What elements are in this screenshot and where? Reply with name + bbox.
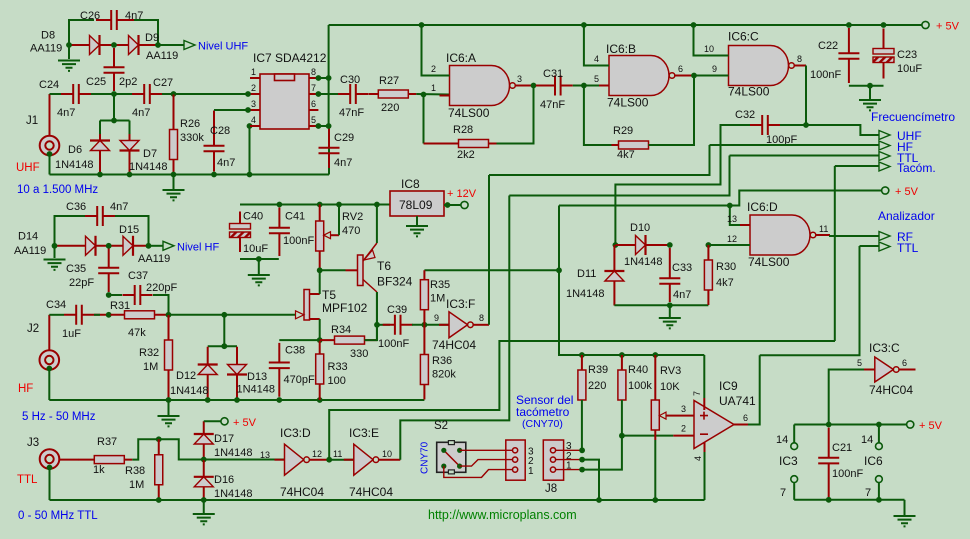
wire to ground xyxy=(869,86,871,99)
junction R35/R36/pin9 xyxy=(422,322,428,328)
resistor R32 xyxy=(165,315,173,400)
wire C29 bottom xyxy=(328,147,330,175)
wire main ground rail xyxy=(50,499,705,501)
junction +5V/R35 line xyxy=(556,267,562,273)
wire rail to IC6:A pin2 xyxy=(422,25,450,76)
svg-text:74LS00: 74LS00 xyxy=(728,85,770,99)
power terminal +12V xyxy=(461,201,468,208)
capacitor C26 xyxy=(96,10,135,30)
wire IC9 pin4 xyxy=(704,452,706,500)
transistor T6 BF324 xyxy=(346,243,377,292)
svg-text:C30: C30 xyxy=(340,74,360,86)
svg-text:R30: R30 xyxy=(716,261,736,273)
capacitor C41 xyxy=(269,208,290,257)
wire to T5 gate xyxy=(224,314,295,316)
junction R33 bottom xyxy=(317,397,323,403)
junction R32 bottom xyxy=(166,397,172,403)
wire J8 pin3 out xyxy=(556,449,583,451)
diode D14 AA119 xyxy=(55,236,110,256)
NAND gate IC6:C 74LS00 xyxy=(719,46,795,86)
svg-text:D12: D12 xyxy=(176,370,196,382)
svg-text:1N4148: 1N4148 xyxy=(55,159,94,171)
svg-text:4n7: 4n7 xyxy=(334,157,352,169)
junction C39 tap xyxy=(374,322,380,328)
wire IC3 pin7 down xyxy=(793,483,795,500)
capacitor C36 xyxy=(85,206,115,226)
wire to D7 xyxy=(129,121,131,135)
wire IC9 pin4 stub xyxy=(704,442,706,452)
svg-text:1N4148: 1N4148 xyxy=(237,384,276,396)
svg-text:tacómetro: tacómetro xyxy=(516,405,570,419)
terminal arrow UHF out xyxy=(879,131,890,140)
wire C28 to IC7 pin3 xyxy=(214,109,250,111)
wire C26 right xyxy=(134,20,158,45)
wire line C upper xyxy=(509,156,729,196)
svg-text:MPF102: MPF102 xyxy=(322,301,368,315)
wire IC3:E out to line C riser xyxy=(400,196,509,460)
terminal arrow Nivel HF xyxy=(163,241,174,250)
capacitor C30 xyxy=(338,84,368,104)
IC3 power pin 7 xyxy=(791,476,798,483)
svg-text:7: 7 xyxy=(692,391,702,396)
junction J8 pin2 xyxy=(579,457,585,463)
connector J2 body xyxy=(40,350,60,370)
svg-text:4n7: 4n7 xyxy=(110,201,128,213)
wire rail to ground xyxy=(173,175,175,190)
wire J8 pin1 out xyxy=(556,469,583,471)
svg-text:22pF: 22pF xyxy=(69,277,94,289)
terminal arrow TTL analyzer xyxy=(879,242,890,251)
wire S2 to header pin3 xyxy=(460,449,513,451)
svg-text:AA119: AA119 xyxy=(146,50,178,62)
wire to IC3:E pin11 xyxy=(329,459,354,461)
junction RV2 top xyxy=(317,202,323,208)
wire TTL analyzer riser xyxy=(760,246,860,355)
junction rail/IC6B pin4 xyxy=(581,22,587,28)
wire to ground xyxy=(904,500,906,515)
wire C24 left xyxy=(50,93,62,95)
wire IC3 pin14 up xyxy=(793,425,795,443)
junction R27/R28 xyxy=(421,92,427,98)
wire C32 left to D10 node (line B) xyxy=(615,125,750,245)
svg-text:1: 1 xyxy=(528,466,534,477)
op-amp IC9 UA741 xyxy=(694,401,734,449)
svg-text:+ 5V: + 5V xyxy=(919,420,943,432)
junction IC7 pin4 down xyxy=(247,172,253,178)
junction bridge xyxy=(221,343,227,349)
wire TTL analyzer arrow xyxy=(860,245,880,247)
junction C41 top xyxy=(277,202,283,208)
junction IC7 pin5 xyxy=(316,123,322,129)
svg-text:TTL: TTL xyxy=(17,474,38,486)
svg-text:RV3: RV3 xyxy=(660,365,681,377)
power terminal +5V top right xyxy=(922,21,929,28)
capacitor C31 xyxy=(536,76,573,96)
svg-text:+ 5V: + 5V xyxy=(233,417,257,429)
wire R37 zigzag to clamp node xyxy=(132,439,203,459)
junction IC7 pin4 xyxy=(247,123,253,129)
junction C25 bottom xyxy=(111,91,117,97)
wire Tacom riser xyxy=(834,166,836,341)
svg-text:C34: C34 xyxy=(46,299,66,311)
wire IC9 pin2 stub xyxy=(673,435,694,437)
junction +5V to IC6:D pin13 xyxy=(727,203,733,209)
svg-text:4k7: 4k7 xyxy=(716,277,734,289)
svg-text:R28: R28 xyxy=(453,124,473,136)
svg-text:R31: R31 xyxy=(110,300,130,312)
wire J2 stub up xyxy=(48,315,50,351)
svg-text:IC6: IC6 xyxy=(864,454,883,468)
svg-text:4: 4 xyxy=(251,115,256,125)
wire to D6 xyxy=(99,121,101,135)
svg-text:R29: R29 xyxy=(613,125,633,137)
wire down to R29 xyxy=(584,86,619,146)
svg-text:1N4148: 1N4148 xyxy=(624,256,663,268)
svg-text:74HC04: 74HC04 xyxy=(280,485,324,499)
svg-text:11: 11 xyxy=(819,224,828,234)
capacitor C35 xyxy=(98,249,119,293)
junction bridge gnd xyxy=(256,256,262,262)
wire Tacom arrow line xyxy=(835,165,879,167)
diode D12 1N4148 xyxy=(198,347,218,400)
svg-text:74HC04: 74HC04 xyxy=(869,383,913,397)
junction D13 bottom xyxy=(234,397,240,403)
terminal arrow Tacom out xyxy=(879,162,890,171)
svg-text:100nF: 100nF xyxy=(283,235,314,247)
svg-text:14: 14 xyxy=(861,434,873,446)
resistor R40 xyxy=(618,355,626,400)
wire rail to IC6:C pin10 xyxy=(694,25,729,56)
svg-text:10uF: 10uF xyxy=(897,63,922,75)
svg-text:IC6:B: IC6:B xyxy=(606,42,636,56)
IC6 power pin 7 xyxy=(876,476,883,483)
svg-text:3: 3 xyxy=(681,404,686,414)
junction C33 bottom xyxy=(667,302,673,308)
junction C35 bottom node xyxy=(106,312,112,318)
capacitor C24 xyxy=(61,84,91,104)
IC7 pin 1 stub xyxy=(250,77,260,79)
wire to IC9 pin2 xyxy=(622,435,673,437)
capacitor C37 xyxy=(123,285,153,305)
wire IC6:D pin11 stub xyxy=(816,234,830,236)
svg-text:C29: C29 xyxy=(334,132,354,144)
wire T5 source down xyxy=(319,319,321,340)
wire down to D6/D7 xyxy=(113,94,115,121)
wire +5V riser and sub-rail xyxy=(559,206,704,356)
wire pin6 node to IC6:C pin9 xyxy=(694,75,729,77)
wire to ground xyxy=(168,400,170,415)
svg-text:T6: T6 xyxy=(377,259,391,273)
junction RV3 bottom xyxy=(652,497,658,503)
wire to Nivel UHF arrow xyxy=(158,44,184,46)
wire J2 down xyxy=(48,369,50,401)
junction R38 bottom xyxy=(156,497,162,503)
wire clamp to IC3:D pin13 xyxy=(204,459,285,461)
junction T5 drain/RV2/T6 base xyxy=(317,267,323,273)
svg-text:6: 6 xyxy=(743,413,748,423)
junction R34/R33/T5 xyxy=(317,337,323,343)
svg-text:3: 3 xyxy=(517,74,522,84)
svg-text:UA741: UA741 xyxy=(719,394,756,408)
component S2 CNY70 sensor xyxy=(437,441,466,474)
inverter IC3:C 74HC04 xyxy=(865,357,899,382)
wire T5 drain up xyxy=(319,270,321,294)
junction R40/pin2/J8-1 xyxy=(619,433,625,439)
wire down to bridge xyxy=(223,315,225,346)
wire S2 to header pin1 xyxy=(444,466,513,477)
svg-text:+ 5V: + 5V xyxy=(936,21,960,33)
svg-text:1M: 1M xyxy=(430,293,445,305)
wire C22/C23 bottom xyxy=(849,85,884,87)
S2 pin dot TR xyxy=(457,448,462,453)
svg-text:9: 9 xyxy=(434,313,439,323)
svg-text:10: 10 xyxy=(704,44,714,54)
junction D6/D7 bridge xyxy=(111,118,117,124)
svg-text:C32: C32 xyxy=(735,109,755,121)
terminal arrow HF out xyxy=(879,141,890,150)
inverter IC3:D 74HC04 xyxy=(275,444,310,475)
junction J1 bottom xyxy=(47,151,53,157)
wire IC7 pin4 down xyxy=(249,126,251,175)
wire to ground xyxy=(54,246,56,258)
wire S2 to header pin2 xyxy=(460,460,513,467)
wire pin7 to C30 xyxy=(318,93,338,95)
wire to ground xyxy=(68,45,70,59)
wire C39 to pin9 xyxy=(412,324,449,326)
connector header 3-pin xyxy=(506,440,525,480)
transistor T5 MPF102 xyxy=(296,290,320,321)
wire J3 down xyxy=(49,468,51,501)
svg-text:IC7 SDA4212: IC7 SDA4212 xyxy=(253,51,327,65)
junction IC6 pin7 xyxy=(876,497,882,503)
wire HF ground rail xyxy=(49,399,424,401)
wire C24-C25 xyxy=(91,93,112,95)
wire IC6 pin14 up xyxy=(878,425,880,443)
svg-text:D10: D10 xyxy=(630,222,650,234)
svg-text:Nivel HF: Nivel HF xyxy=(177,242,219,254)
svg-text:IC3:D: IC3:D xyxy=(280,426,311,440)
wire IC6:C pin8 stub xyxy=(794,65,806,67)
svg-text:47nF: 47nF xyxy=(339,107,364,119)
diode D8 AA119 xyxy=(69,35,114,55)
resistor R36 xyxy=(420,325,428,400)
resistor R31 xyxy=(111,311,169,319)
S2 pin dot BR xyxy=(457,464,462,469)
resistor R30 xyxy=(704,245,712,305)
resistor R28 xyxy=(424,140,497,148)
wire HF arrow line xyxy=(710,144,880,146)
wire to ground xyxy=(669,305,671,317)
junction J8 pin1 xyxy=(579,467,585,473)
svg-text:R34: R34 xyxy=(331,324,351,336)
svg-text:IC6:D: IC6:D xyxy=(747,200,778,214)
junction gate line xyxy=(221,312,227,318)
svg-text:C33: C33 xyxy=(672,262,692,274)
junction D16 bottom xyxy=(201,497,207,503)
wire IC3:C pin6 stub xyxy=(899,369,916,371)
wire C36 right xyxy=(115,216,149,246)
svg-text:D14: D14 xyxy=(18,231,38,243)
svg-text:C36: C36 xyxy=(66,201,86,213)
svg-text:100nF: 100nF xyxy=(378,338,409,350)
svg-text:220: 220 xyxy=(381,102,399,114)
capacitor C33 xyxy=(659,248,680,302)
wire T6 collector down xyxy=(376,292,378,340)
junction rail/C23 xyxy=(881,22,887,28)
terminal arrow RF out xyxy=(879,232,890,241)
wire UHF bottom rail xyxy=(50,174,330,176)
svg-text:4n7: 4n7 xyxy=(217,157,235,169)
wire to IC6:D pin12 xyxy=(708,244,750,246)
svg-text:J2: J2 xyxy=(27,323,39,335)
junction RV2 wiper xyxy=(336,202,342,208)
svg-text:C25: C25 xyxy=(86,76,106,88)
wire R27 to IC6:A pin1 xyxy=(416,93,449,96)
svg-text:74LS00: 74LS00 xyxy=(607,96,649,110)
capacitor C38 xyxy=(269,343,290,397)
svg-text:T5: T5 xyxy=(322,288,336,302)
ground IC8 xyxy=(406,226,428,236)
wire 9V rail xyxy=(240,204,390,206)
junction IC8 out xyxy=(445,202,451,208)
resistor R34 xyxy=(320,336,378,344)
terminal arrow TTL out xyxy=(879,152,890,161)
junction pin12/pin11 xyxy=(326,457,332,463)
svg-text:+ 5V: + 5V xyxy=(895,186,919,198)
wire +5V sub-rail right xyxy=(794,424,906,426)
junction IC7 pin2 xyxy=(245,91,251,97)
inverter IC3:F 74HC04 xyxy=(439,312,473,338)
resistor R26 xyxy=(170,95,178,175)
svg-text:1: 1 xyxy=(251,67,256,77)
wire to ground xyxy=(203,500,205,513)
wire to UHF arrow xyxy=(806,125,879,135)
junction D6 bottom xyxy=(97,172,103,178)
wire D11/C33/R30 bottom xyxy=(614,304,708,306)
wire R29 to pin6 node xyxy=(649,76,695,146)
svg-text:IC6:C: IC6:C xyxy=(728,30,759,44)
capacitor C25 xyxy=(104,48,125,91)
svg-text:IC3:E: IC3:E xyxy=(349,426,379,440)
wire to C39 xyxy=(377,324,390,326)
wire +5V line D xyxy=(559,191,882,206)
svg-text:5 Hz - 50 MHz: 5 Hz - 50 MHz xyxy=(22,411,96,423)
svg-text:IC3: IC3 xyxy=(779,454,798,468)
svg-text:74LS00: 74LS00 xyxy=(748,255,790,269)
svg-text:10: 10 xyxy=(382,449,392,459)
wire J8 pin2 to gnd xyxy=(582,460,599,500)
svg-text:4: 4 xyxy=(693,456,703,461)
wire rail to IC6:B pin4 xyxy=(584,25,609,66)
wire pin5 to +5V rail xyxy=(829,370,864,425)
resistor R27 xyxy=(368,90,416,98)
svg-text:470: 470 xyxy=(342,225,360,237)
IC3 power pin 14 xyxy=(791,443,798,450)
diode D15 AA119 xyxy=(109,236,149,256)
junction riser pin5 xyxy=(326,123,332,129)
svg-text:10 a 1.500 MHz: 10 a 1.500 MHz xyxy=(17,184,98,196)
wire IC6 pin7 down xyxy=(878,483,880,500)
IC7 pin 8 stub xyxy=(309,77,318,79)
wire pin8-pin5 riser xyxy=(328,78,330,126)
svg-text:5: 5 xyxy=(857,358,862,368)
NAND gate IC6:A 74LS00 xyxy=(440,66,516,106)
svg-text:100k: 100k xyxy=(628,380,652,392)
svg-text:CNY70: CNY70 xyxy=(420,441,431,474)
svg-text:C24: C24 xyxy=(39,79,59,91)
node D14 anode xyxy=(52,243,58,249)
svg-text:820k: 820k xyxy=(432,369,456,381)
capacitor C22 xyxy=(838,28,859,83)
svg-text:220pF: 220pF xyxy=(146,282,177,294)
potentiometer RV3 xyxy=(651,355,680,440)
svg-text:13: 13 xyxy=(727,214,737,224)
diode D6 1N4148 xyxy=(90,134,110,175)
inverter IC3:E 74HC04 xyxy=(344,444,379,475)
wire pin11 to RF arrow xyxy=(830,235,879,236)
svg-text:R39: R39 xyxy=(588,364,608,376)
wire feedback riser left xyxy=(423,95,425,144)
junction rail/C22 xyxy=(846,22,852,28)
node D14/D15 junction xyxy=(106,243,112,249)
svg-text:R26: R26 xyxy=(180,118,200,130)
svg-text:4: 4 xyxy=(594,54,599,64)
svg-text:1: 1 xyxy=(431,83,436,93)
IC7 pin 3 stub xyxy=(250,109,260,111)
svg-text:C37: C37 xyxy=(128,270,148,282)
ground HF detector xyxy=(44,260,66,270)
junction D7 bottom xyxy=(127,172,133,178)
node D8 anode xyxy=(66,42,72,48)
wire D12/D13 bridge xyxy=(208,345,237,347)
capacitor C34 xyxy=(64,305,107,325)
junction IC7 pin3 xyxy=(245,107,251,113)
svg-text:R37: R37 xyxy=(97,436,117,448)
IC7 pin 5 stub xyxy=(309,125,318,127)
wire C35-C37 xyxy=(109,294,122,296)
wire J3 to R37 xyxy=(59,459,79,461)
svg-text:C35: C35 xyxy=(66,263,86,275)
terminal arrow Nivel UHF xyxy=(184,41,195,50)
svg-text:10K: 10K xyxy=(660,381,680,393)
wire RV3 bottom to gnd xyxy=(654,440,656,500)
wire to D12/D13 node xyxy=(169,314,225,316)
svg-text:C31: C31 xyxy=(543,68,563,80)
svg-text:4n7: 4n7 xyxy=(57,107,75,119)
IC7 pin 7 stub xyxy=(309,93,318,95)
junction R38 top xyxy=(156,436,162,442)
wire D17 to +5V xyxy=(204,420,221,422)
junction J3 bottom xyxy=(47,465,53,471)
wire J1 down xyxy=(49,154,51,175)
svg-text:8: 8 xyxy=(311,67,316,77)
svg-text:C38: C38 xyxy=(285,345,305,357)
IC U IC7 SDA4212 xyxy=(260,74,309,129)
svg-text:Nivel UHF: Nivel UHF xyxy=(198,41,248,53)
svg-text:100nF: 100nF xyxy=(832,468,863,480)
potentiometer RV2 xyxy=(316,205,339,271)
wire J1 stub up xyxy=(49,94,51,136)
capacitor C39 xyxy=(383,315,413,335)
junction C31/IC6:B pin5 xyxy=(581,83,587,89)
junction RV3 top xyxy=(652,352,658,358)
capacitor C29 xyxy=(319,126,340,168)
capacitor C40 polarized xyxy=(230,212,251,253)
svg-text:1N4148: 1N4148 xyxy=(129,161,168,173)
junction C21 bottom xyxy=(826,497,832,503)
power terminal +5V mid xyxy=(882,187,889,194)
junction C28 bottom xyxy=(211,172,217,178)
